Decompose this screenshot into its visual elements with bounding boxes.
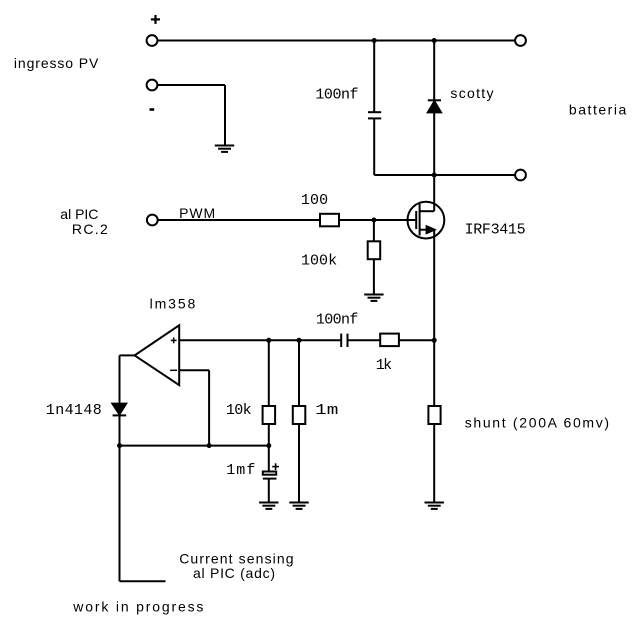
- node junction R4 top: [297, 338, 302, 343]
- wire C1 column top: [373, 41, 375, 113]
- wire top bus PV+ to battery+: [157, 40, 515, 42]
- svg-text:100nf: 100nf: [316, 312, 359, 329]
- node junction bottom bus diode column: [432, 173, 437, 178]
- PV plus sign: [151, 15, 160, 24]
- svg-text:1n4148: 1n4148: [46, 402, 102, 419]
- svg-text:al PIC: al PIC: [60, 206, 98, 222]
- ground GND4 (R4 1m): [289, 503, 308, 509]
- svg-text:IRF3415: IRF3415: [465, 222, 526, 239]
- wire gate node down to R2: [373, 220, 375, 241]
- svg-text:PWM: PWM: [179, 205, 215, 221]
- node junction output/feedback: [117, 443, 122, 448]
- wire PWM to R1: [158, 219, 320, 221]
- op-amp + input mark: [171, 338, 177, 344]
- svg-text:1k: 1k: [376, 357, 392, 374]
- wire PV- horizontal: [157, 84, 225, 86]
- terminal PV-: [147, 80, 158, 91]
- wire output column through D2: [119, 355, 121, 445]
- svg-text:batteria: batteria: [569, 102, 627, 118]
- transistor Q1 IRF3415: [408, 202, 445, 239]
- wire C1 column bottom: [373, 118, 375, 175]
- node junction R3 bottom bus: [266, 443, 271, 448]
- op-amp U1 lm358 triangle: [135, 325, 180, 385]
- op-amp - input mark: [170, 369, 177, 371]
- resistor R1 100: [320, 214, 339, 227]
- ground GND5 (shunt): [425, 503, 444, 509]
- wire PV- down to ground: [224, 85, 226, 146]
- resistor R4 1m: [293, 406, 306, 424]
- wire R2 to ground: [373, 259, 375, 294]
- diode D1 scotty (pointing up): [428, 100, 441, 112]
- terminal PWM input: [147, 215, 158, 226]
- wire R1 to gate: [339, 219, 415, 221]
- wire C3 to ground: [268, 478, 270, 502]
- resistor shunt: [428, 406, 440, 424]
- ground GND3 (C3 1mf): [259, 503, 278, 509]
- terminal PV+: [147, 35, 158, 46]
- wire current sensing right: [120, 580, 166, 582]
- svg-text:ingresso PV: ingresso PV: [14, 55, 99, 71]
- wire - input feedback down: [208, 370, 210, 445]
- node junction shunt column / R5: [432, 338, 437, 343]
- wire source/shunt column: [433, 230, 435, 406]
- svg-text:10k: 10k: [226, 402, 252, 419]
- diode D2 1n4148 (pointing down): [112, 404, 126, 416]
- wire R4 to ground: [298, 424, 300, 503]
- svg-text:lm358: lm358: [150, 296, 196, 312]
- node junction gate/R2: [371, 218, 376, 223]
- wire op-amp output left: [120, 354, 135, 356]
- svg-text:work in progress: work in progress: [72, 598, 203, 614]
- svg-text:100nf: 100nf: [315, 87, 358, 104]
- wire feedback bottom bus: [120, 445, 269, 447]
- resistor R5 1k: [380, 334, 399, 347]
- svg-text:100: 100: [301, 192, 328, 209]
- ground GND1 (PV-): [215, 146, 234, 152]
- terminal battery-: [515, 170, 526, 181]
- svg-text:scotty: scotty: [450, 85, 493, 101]
- wire op-amp - input horizontal: [179, 369, 209, 371]
- svg-text:al PIC (adc): al PIC (adc): [193, 565, 275, 581]
- wire bottom bus to battery-: [374, 174, 515, 176]
- svg-text:1m: 1m: [315, 402, 338, 419]
- PV minus sign: [150, 108, 155, 111]
- node junction feedback down: [207, 443, 212, 448]
- svg-text:100k: 100k: [301, 252, 337, 269]
- node junction top C1: [372, 38, 377, 43]
- wire current sensing down: [119, 446, 121, 582]
- capacitor C1 100nf (vertical): [368, 112, 381, 118]
- capacitor C3 1mf electrolytic: [263, 463, 279, 478]
- wire R4 column top: [298, 340, 300, 406]
- ground GND2 (R2 100k): [364, 295, 383, 301]
- svg-text:RC.2: RC.2: [72, 221, 108, 237]
- svg-text:1mf: 1mf: [226, 462, 255, 479]
- wire R5 to shunt column: [399, 339, 434, 341]
- wire op-amp + input to C2: [179, 339, 341, 341]
- wire diode/drain column: [433, 41, 435, 212]
- resistor R3 10k: [263, 406, 276, 424]
- node junction R3 top: [266, 338, 271, 343]
- wire C2 to R5: [348, 339, 381, 341]
- wire R3 column top: [268, 340, 270, 406]
- wire R3 to C3: [268, 424, 270, 472]
- node junction top diode: [432, 38, 437, 43]
- wire shunt to ground: [433, 424, 435, 503]
- terminal battery+: [515, 35, 526, 46]
- capacitor C2 100nf (horizontal): [341, 334, 347, 347]
- resistor R2 100k: [368, 241, 381, 259]
